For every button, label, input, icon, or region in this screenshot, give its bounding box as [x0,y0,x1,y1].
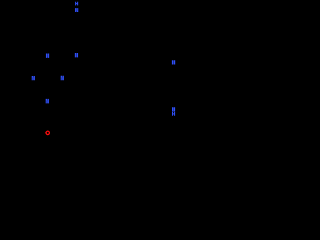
atom label N25 (right pyridine N) [172,60,175,64]
atom label N5 (triazine lower-left N) [32,76,35,80]
atom label N (top NH group) [75,8,78,12]
bond C2-N13 (exocyclic amine) [62,58,75,65]
atom label O10 (morpholine O) [46,131,51,136]
bond N5-C6 (triazine ring) [32,64,34,75]
bond C24-N25 (right pyridine ring) [160,64,171,70]
bond C11-C12 (morpholine ring) [33,109,35,125]
bond C18-C19 (top ring) [62,18,64,34]
bond C4-N5 (triazine ring) [33,82,48,87]
bond N17-C18 (top ring) [63,12,75,19]
atom label N1 (triazine top N) [46,53,49,57]
bond C29-C24 (right pyridine ring) [159,70,161,86]
bond C20-C21 (chain) [104,42,118,50]
bond C22-C23 (chain) [132,58,146,66]
bond C28-C29 (right pyridine ring) [160,86,174,94]
bond C14-C15 (top ring) [77,34,91,42]
bond C4-N7 (to morpholine N) [46,87,47,98]
atom label N3 (triazine lower-right N) [61,76,64,81]
bond C28-N30 (to right NH) [173,94,175,105]
bond N1-C2 (triazine ring, black on black) [48,59,62,65]
atom label H (top NH group, H above N) [75,2,78,6]
bond O10-C11 (morpholine ring) [34,125,46,131]
bond N3-C4 (triazine ring) [47,82,62,87]
bond C19-C14 (top ring) [63,34,77,42]
bond C21-C22 (chain) [118,50,132,58]
bond C23-C24 (to right ring) [146,66,160,71]
atom label N13 (exocyclic amine N) [75,53,78,57]
atom label H30 (right NH group H) [172,112,175,116]
bond C15-C20 (chain) [91,34,105,42]
bond C12-N7 (morpholine ring) [34,103,45,109]
bond N25-C26 (right pyridine ring) [176,64,187,70]
bond C9-O10 (morpholine ring) [50,125,60,131]
bond N7-C8 (morpholine ring) [49,103,61,109]
bond C16-N17 (top ring NH) [79,12,91,19]
bond C26-C27 (right pyridine ring) [186,70,188,86]
bond C6-N1 (triazine ring) [33,53,48,64]
bond C8-C9 (morpholine ring) [59,109,61,125]
bond end fragment (red anti-aliased tick left of O) [44,132,47,133]
bond C2-N3 (triazine ring) [61,64,63,75]
atom label N30 (right NH group, N above H) [172,107,175,111]
atom label N7 (morpholine N) [46,99,49,104]
bond C15-C16 (top ring) [90,18,92,34]
bond C27-C28 (right pyridine ring) [174,86,188,94]
bond N13-C14 (linker to top ring) [75,42,78,52]
